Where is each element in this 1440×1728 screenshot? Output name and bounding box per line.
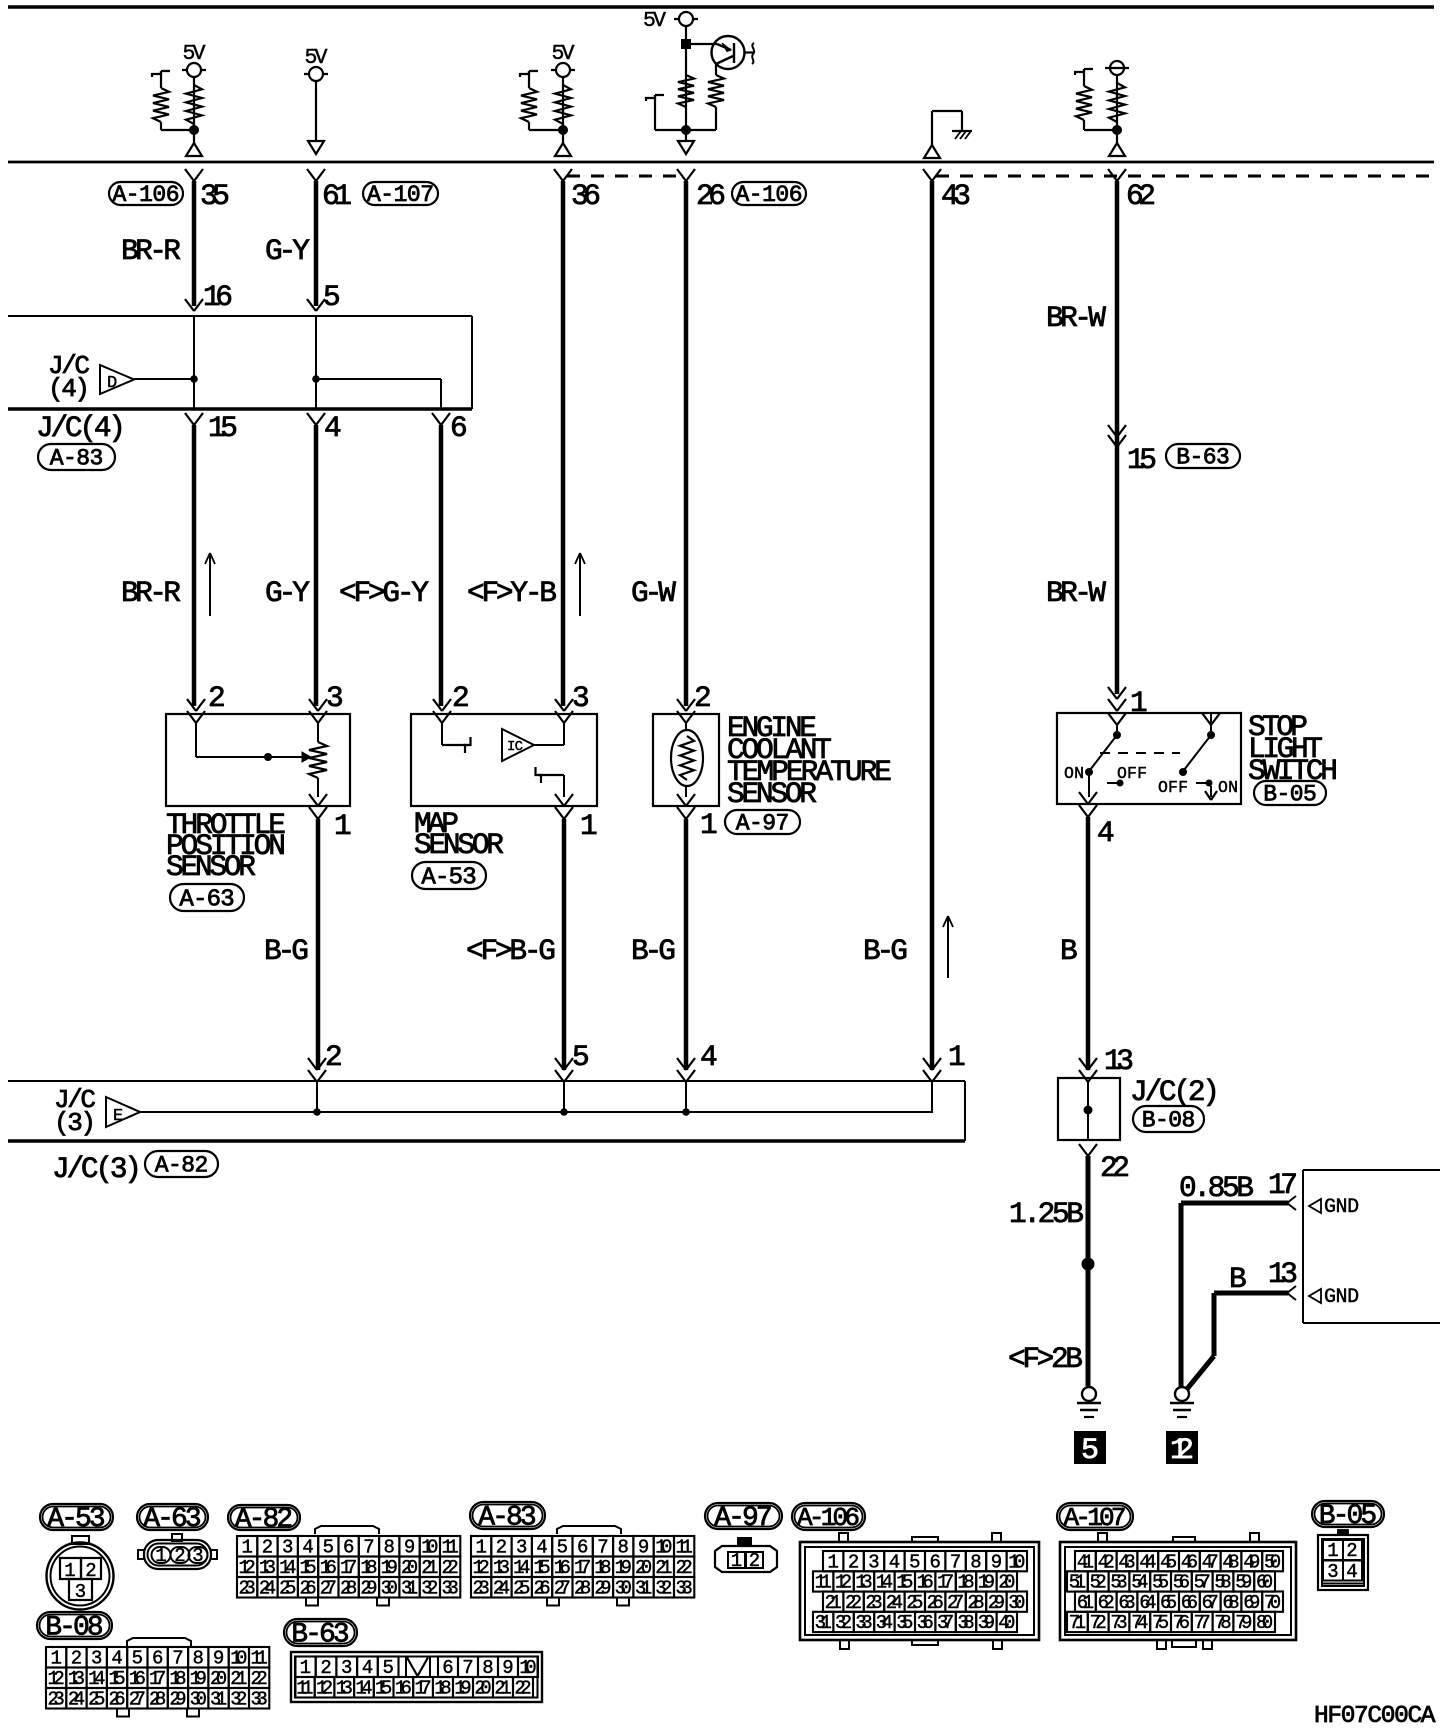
svg-text:23: 23 <box>865 1592 882 1614</box>
svg-text:ON: ON <box>1064 764 1084 783</box>
svg-text:9: 9 <box>638 1537 649 1559</box>
svg-text:3: 3 <box>341 1657 352 1679</box>
svg-text:53: 53 <box>1110 1572 1127 1594</box>
svg-text:71: 71 <box>1069 1612 1086 1634</box>
svg-text:16: 16 <box>554 1557 571 1579</box>
svg-text:2: 2 <box>85 1560 96 1582</box>
svg-text:4: 4 <box>362 1657 373 1679</box>
svg-text:33: 33 <box>676 1578 693 1600</box>
svg-text:29: 29 <box>360 1578 377 1600</box>
svg-text:19: 19 <box>978 1572 995 1594</box>
svg-text:13: 13 <box>493 1557 510 1579</box>
svg-text:5V: 5V <box>183 42 206 66</box>
svg-text:26: 26 <box>108 1689 125 1711</box>
svg-text:30: 30 <box>1008 1592 1025 1614</box>
svg-text:65: 65 <box>1160 1592 1177 1614</box>
svg-text:61: 61 <box>1077 1592 1094 1614</box>
svg-text:18: 18 <box>957 1572 974 1594</box>
svg-text:24: 24 <box>493 1578 510 1600</box>
svg-text:6: 6 <box>577 1537 588 1559</box>
svg-text:J/C(4): J/C(4) <box>36 411 126 445</box>
svg-text:12: 12 <box>239 1557 256 1579</box>
svg-text:15: 15 <box>1127 443 1157 477</box>
svg-text:33: 33 <box>442 1578 459 1600</box>
svg-text:12: 12 <box>316 1678 333 1700</box>
svg-text:3: 3 <box>192 1545 203 1567</box>
svg-text:13: 13 <box>259 1557 276 1579</box>
svg-text:B-63: B-63 <box>1176 445 1230 471</box>
svg-text:3: 3 <box>91 1648 102 1670</box>
svg-text:24: 24 <box>886 1592 903 1614</box>
svg-text:16: 16 <box>203 280 233 314</box>
svg-text:73: 73 <box>1110 1612 1127 1634</box>
svg-text:0.85B: 0.85B <box>1179 1171 1254 1205</box>
svg-text:37: 37 <box>937 1612 954 1634</box>
svg-text:E: E <box>113 1107 123 1126</box>
svg-text:11: 11 <box>296 1678 313 1700</box>
svg-text:1: 1 <box>300 1657 311 1679</box>
svg-text:5: 5 <box>1081 1434 1099 1468</box>
svg-text:2: 2 <box>208 681 226 715</box>
svg-text:B-63: B-63 <box>291 1620 349 1651</box>
svg-text:7: 7 <box>172 1648 183 1670</box>
svg-text:17: 17 <box>149 1668 166 1690</box>
svg-text:HF07C00CA: HF07C00CA <box>1314 1703 1436 1728</box>
svg-text:A-97: A-97 <box>736 811 790 837</box>
svg-text:17: 17 <box>937 1572 954 1594</box>
svg-text:56: 56 <box>1173 1572 1190 1594</box>
svg-text:40: 40 <box>998 1612 1015 1634</box>
svg-text:ON: ON <box>1218 778 1238 797</box>
svg-text:27: 27 <box>320 1578 337 1600</box>
svg-text:A-107: A-107 <box>367 182 434 208</box>
svg-text:6: 6 <box>450 411 468 445</box>
svg-text:51: 51 <box>1069 1572 1086 1594</box>
svg-text:GND: GND <box>1324 1286 1359 1309</box>
svg-text:6: 6 <box>442 1657 453 1679</box>
svg-text:3: 3 <box>282 1537 293 1559</box>
svg-text:68: 68 <box>1222 1592 1239 1614</box>
svg-text:26: 26 <box>927 1592 944 1614</box>
svg-text:5: 5 <box>909 1551 920 1573</box>
svg-text:3: 3 <box>1327 1561 1338 1583</box>
svg-text:D: D <box>107 374 117 393</box>
svg-text:10: 10 <box>1008 1551 1025 1573</box>
svg-text:18: 18 <box>434 1678 451 1700</box>
svg-text:7: 7 <box>950 1551 961 1573</box>
svg-text:20: 20 <box>210 1668 227 1690</box>
svg-text:2: 2 <box>325 1040 343 1074</box>
svg-text:24: 24 <box>259 1578 276 1600</box>
svg-text:B-G: B-G <box>863 934 908 968</box>
svg-text:33: 33 <box>855 1612 872 1634</box>
svg-text:4: 4 <box>324 411 342 445</box>
svg-text:A-97: A-97 <box>714 1503 772 1534</box>
svg-text:60: 60 <box>1256 1572 1273 1594</box>
svg-text:B: B <box>1060 934 1078 968</box>
svg-text:13: 13 <box>68 1668 85 1690</box>
svg-text:25: 25 <box>88 1689 105 1711</box>
svg-text:28: 28 <box>967 1592 984 1614</box>
svg-text:15: 15 <box>533 1557 550 1579</box>
svg-text:<F>Y-B: <F>Y-B <box>467 576 557 610</box>
svg-text:59: 59 <box>1235 1572 1252 1594</box>
svg-text:43: 43 <box>1118 1551 1135 1573</box>
svg-text:11: 11 <box>442 1537 459 1559</box>
svg-text:79: 79 <box>1235 1612 1252 1634</box>
svg-text:6: 6 <box>152 1648 163 1670</box>
svg-text:41: 41 <box>1077 1551 1094 1573</box>
svg-text:BR-W: BR-W <box>1046 576 1106 610</box>
svg-text:23: 23 <box>473 1578 490 1600</box>
svg-text:31: 31 <box>815 1612 832 1634</box>
svg-text:26: 26 <box>533 1578 550 1600</box>
svg-text:5: 5 <box>323 1537 334 1559</box>
svg-text:28: 28 <box>149 1689 166 1711</box>
svg-text:2: 2 <box>320 1657 331 1679</box>
svg-text:5V: 5V <box>305 46 328 70</box>
svg-text:19: 19 <box>381 1557 398 1579</box>
svg-text:12: 12 <box>48 1668 65 1690</box>
svg-text:1: 1 <box>1327 1540 1338 1562</box>
svg-text:B-G: B-G <box>631 934 676 968</box>
svg-text:30: 30 <box>381 1578 398 1600</box>
svg-text:5V: 5V <box>643 9 666 33</box>
svg-text:14: 14 <box>279 1557 296 1579</box>
svg-text:22: 22 <box>442 1557 459 1579</box>
svg-text:58: 58 <box>1214 1572 1231 1594</box>
svg-text:3: 3 <box>572 681 590 715</box>
svg-text:13: 13 <box>1104 1044 1134 1078</box>
svg-text:B-08: B-08 <box>45 1613 103 1644</box>
svg-text:B-08: B-08 <box>1142 1108 1196 1134</box>
svg-text:74: 74 <box>1131 1612 1148 1634</box>
svg-text:A-53: A-53 <box>47 1504 105 1535</box>
svg-text:5: 5 <box>132 1648 143 1670</box>
svg-text:18: 18 <box>169 1668 186 1690</box>
svg-text:67: 67 <box>1202 1592 1219 1614</box>
svg-text:77: 77 <box>1194 1612 1211 1634</box>
svg-text:35: 35 <box>896 1612 913 1634</box>
svg-text:<F>2B: <F>2B <box>1008 1342 1083 1376</box>
svg-text:<F>B-G: <F>B-G <box>466 934 556 968</box>
svg-text:64: 64 <box>1139 1592 1156 1614</box>
svg-text:13: 13 <box>336 1678 353 1700</box>
svg-text:B-05: B-05 <box>1263 782 1317 808</box>
svg-text:24: 24 <box>68 1689 85 1711</box>
svg-text:38: 38 <box>957 1612 974 1634</box>
svg-text:10: 10 <box>230 1648 247 1670</box>
svg-text:17: 17 <box>340 1557 357 1579</box>
svg-text:69: 69 <box>1243 1592 1260 1614</box>
svg-text:21: 21 <box>655 1557 672 1579</box>
svg-text:2: 2 <box>452 681 470 715</box>
svg-text:78: 78 <box>1214 1612 1231 1634</box>
svg-text:J/C(3): J/C(3) <box>52 1152 142 1186</box>
svg-text:1: 1 <box>731 1550 742 1572</box>
svg-text:20: 20 <box>474 1678 491 1700</box>
svg-text:52: 52 <box>1090 1572 1107 1594</box>
svg-text:63: 63 <box>1118 1592 1135 1614</box>
svg-text:BR-R: BR-R <box>121 234 181 268</box>
svg-text:27: 27 <box>129 1689 146 1711</box>
svg-text:2: 2 <box>749 1550 760 1572</box>
svg-text:21: 21 <box>230 1668 247 1690</box>
svg-text:9: 9 <box>404 1537 415 1559</box>
svg-text:1.25B: 1.25B <box>1009 1197 1084 1231</box>
svg-text:11: 11 <box>676 1537 693 1559</box>
svg-text:31: 31 <box>635 1578 652 1600</box>
svg-text:31: 31 <box>401 1578 418 1600</box>
svg-text:70: 70 <box>1264 1592 1281 1614</box>
svg-text:80: 80 <box>1256 1612 1273 1634</box>
svg-text:43: 43 <box>941 179 971 213</box>
svg-text:16: 16 <box>917 1572 934 1594</box>
svg-text:55: 55 <box>1152 1572 1169 1594</box>
svg-text:4: 4 <box>302 1537 313 1559</box>
svg-text:(4): (4) <box>48 374 90 404</box>
svg-text:26: 26 <box>696 179 726 213</box>
svg-text:20: 20 <box>401 1557 418 1579</box>
svg-text:12: 12 <box>473 1557 490 1579</box>
svg-text:22: 22 <box>514 1678 531 1700</box>
svg-text:A-82: A-82 <box>155 1153 209 1179</box>
svg-text:A-63: A-63 <box>179 886 234 913</box>
svg-text:A-53: A-53 <box>421 864 476 891</box>
svg-text:14: 14 <box>355 1678 372 1700</box>
svg-text:44: 44 <box>1139 1551 1156 1573</box>
svg-text:15: 15 <box>108 1668 125 1690</box>
svg-text:28: 28 <box>340 1578 357 1600</box>
svg-text:BR-R: BR-R <box>121 576 181 610</box>
svg-text:36: 36 <box>917 1612 934 1634</box>
svg-text:2: 2 <box>262 1537 273 1559</box>
svg-text:A-107: A-107 <box>1064 1503 1127 1533</box>
svg-text:23: 23 <box>48 1689 65 1711</box>
svg-text:10: 10 <box>655 1537 672 1559</box>
svg-text:4: 4 <box>889 1551 900 1573</box>
svg-text:23: 23 <box>239 1578 256 1600</box>
svg-text:9: 9 <box>502 1657 513 1679</box>
svg-text:A-106: A-106 <box>736 182 803 208</box>
svg-text:1: 1 <box>827 1551 838 1573</box>
svg-text:OFF: OFF <box>1158 778 1188 797</box>
svg-text:7: 7 <box>597 1537 608 1559</box>
svg-text:A-106: A-106 <box>113 182 180 208</box>
svg-text:3: 3 <box>75 1581 86 1603</box>
svg-text:2: 2 <box>694 681 712 715</box>
svg-text:2: 2 <box>1346 1540 1357 1562</box>
svg-text:11: 11 <box>815 1572 832 1594</box>
svg-text:4: 4 <box>1097 816 1115 850</box>
svg-text:8: 8 <box>384 1537 395 1559</box>
svg-text:18: 18 <box>594 1557 611 1579</box>
svg-text:20: 20 <box>998 1572 1015 1594</box>
svg-text:5: 5 <box>572 1040 590 1074</box>
svg-text:57: 57 <box>1194 1572 1211 1594</box>
svg-text:5: 5 <box>557 1537 568 1559</box>
svg-text:8: 8 <box>482 1657 493 1679</box>
svg-text:62: 62 <box>1126 179 1156 213</box>
svg-text:21: 21 <box>494 1678 511 1700</box>
svg-text:20: 20 <box>635 1557 652 1579</box>
svg-text:46: 46 <box>1181 1551 1198 1573</box>
svg-text:16: 16 <box>320 1557 337 1579</box>
svg-text:7: 7 <box>462 1657 473 1679</box>
svg-text:4: 4 <box>700 1040 718 1074</box>
svg-text:2: 2 <box>848 1551 859 1573</box>
svg-text:50: 50 <box>1264 1551 1281 1573</box>
svg-text:39: 39 <box>978 1612 995 1634</box>
svg-text:25: 25 <box>513 1578 530 1600</box>
svg-text:61: 61 <box>322 179 352 213</box>
svg-text:A-63: A-63 <box>143 1504 201 1535</box>
svg-text:32: 32 <box>835 1612 852 1634</box>
svg-text:(3): (3) <box>54 1108 96 1138</box>
svg-text:3: 3 <box>868 1551 879 1573</box>
svg-text:17: 17 <box>574 1557 591 1579</box>
svg-text:B-G: B-G <box>264 934 309 968</box>
svg-text:22: 22 <box>845 1592 862 1614</box>
svg-text:4: 4 <box>536 1537 547 1559</box>
svg-text:8: 8 <box>970 1551 981 1573</box>
svg-text:1: 1 <box>948 1040 966 1074</box>
svg-text:1: 1 <box>155 1545 166 1567</box>
svg-text:2: 2 <box>71 1648 82 1670</box>
svg-text:B-05: B-05 <box>1319 1501 1377 1532</box>
svg-text:29: 29 <box>988 1592 1005 1614</box>
svg-text:1: 1 <box>700 808 718 842</box>
svg-text:34: 34 <box>876 1612 893 1634</box>
svg-text:31: 31 <box>210 1689 227 1711</box>
svg-text:4: 4 <box>111 1648 122 1670</box>
svg-text:12: 12 <box>1170 1434 1194 1468</box>
svg-text:14: 14 <box>876 1572 893 1594</box>
svg-text:15: 15 <box>208 411 238 445</box>
svg-text:22: 22 <box>1100 1151 1130 1185</box>
svg-text:14: 14 <box>88 1668 105 1690</box>
svg-text:54: 54 <box>1131 1572 1148 1594</box>
svg-text:5: 5 <box>382 1657 393 1679</box>
svg-text:5: 5 <box>323 280 341 314</box>
svg-text:25: 25 <box>906 1592 923 1614</box>
svg-text:1: 1 <box>580 809 598 843</box>
svg-text:A-82: A-82 <box>235 1505 293 1536</box>
svg-text:IC: IC <box>507 739 523 755</box>
svg-text:G-W: G-W <box>631 576 676 610</box>
svg-text:1: 1 <box>475 1537 486 1559</box>
svg-text:1: 1 <box>1130 686 1148 720</box>
svg-text:GND: GND <box>1324 1196 1359 1219</box>
svg-text:62: 62 <box>1098 1592 1115 1614</box>
svg-text:75: 75 <box>1152 1612 1169 1634</box>
svg-text:21: 21 <box>421 1557 438 1579</box>
svg-text:19: 19 <box>454 1678 471 1700</box>
svg-text:16: 16 <box>395 1678 412 1700</box>
svg-text:49: 49 <box>1243 1551 1260 1573</box>
svg-text:22: 22 <box>251 1668 268 1690</box>
svg-text:1: 1 <box>50 1648 61 1670</box>
svg-text:7: 7 <box>363 1537 374 1559</box>
svg-text:11: 11 <box>251 1648 268 1670</box>
svg-text:42: 42 <box>1098 1551 1115 1573</box>
svg-text:J/C(2): J/C(2) <box>1130 1075 1220 1109</box>
svg-text:G-Y: G-Y <box>265 234 310 268</box>
svg-text:6: 6 <box>343 1537 354 1559</box>
svg-text:19: 19 <box>190 1668 207 1690</box>
svg-text:A-83: A-83 <box>478 1503 536 1534</box>
svg-text:29: 29 <box>594 1578 611 1600</box>
svg-text:3: 3 <box>326 681 344 715</box>
svg-text:15: 15 <box>299 1557 316 1579</box>
svg-text:18: 18 <box>360 1557 377 1579</box>
svg-text:16: 16 <box>129 1668 146 1690</box>
svg-text:4: 4 <box>1346 1561 1357 1583</box>
svg-text:13: 13 <box>855 1572 872 1594</box>
svg-text:2: 2 <box>496 1537 507 1559</box>
svg-text:SENSOR: SENSOR <box>414 828 504 862</box>
svg-text:72: 72 <box>1090 1612 1107 1634</box>
svg-text:48: 48 <box>1222 1551 1239 1573</box>
svg-text:SENSOR: SENSOR <box>727 777 817 811</box>
svg-text:SENSOR: SENSOR <box>166 850 256 884</box>
svg-text:36: 36 <box>571 179 601 213</box>
svg-text:29: 29 <box>169 1689 186 1711</box>
svg-text:15: 15 <box>896 1572 913 1594</box>
svg-text:10: 10 <box>519 1657 536 1679</box>
svg-text:47: 47 <box>1202 1551 1219 1573</box>
svg-text:5V: 5V <box>552 42 575 66</box>
svg-text:26: 26 <box>299 1578 316 1600</box>
svg-text:30: 30 <box>615 1578 632 1600</box>
svg-text:15: 15 <box>375 1678 392 1700</box>
svg-text:G-Y: G-Y <box>265 576 310 610</box>
svg-text:25: 25 <box>279 1578 296 1600</box>
svg-text:35: 35 <box>200 179 230 213</box>
svg-text:1: 1 <box>334 809 352 843</box>
svg-text:17: 17 <box>414 1678 431 1700</box>
svg-text:12: 12 <box>835 1572 852 1594</box>
svg-text:1: 1 <box>241 1537 252 1559</box>
svg-text:21: 21 <box>825 1592 842 1614</box>
svg-text:13: 13 <box>1268 1257 1298 1291</box>
svg-text:8: 8 <box>193 1648 204 1670</box>
svg-text:9: 9 <box>213 1648 224 1670</box>
svg-text:33: 33 <box>251 1689 268 1711</box>
svg-text:14: 14 <box>513 1557 530 1579</box>
svg-text:28: 28 <box>574 1578 591 1600</box>
svg-text:A-83: A-83 <box>50 446 104 472</box>
svg-text:9: 9 <box>991 1551 1002 1573</box>
svg-text:<F>G-Y: <F>G-Y <box>339 576 429 610</box>
svg-text:6: 6 <box>929 1551 940 1573</box>
svg-text:1: 1 <box>64 1560 75 1582</box>
svg-text:8: 8 <box>618 1537 629 1559</box>
svg-text:27: 27 <box>554 1578 571 1600</box>
svg-text:32: 32 <box>421 1578 438 1600</box>
svg-text:76: 76 <box>1173 1612 1190 1634</box>
svg-text:3: 3 <box>516 1537 527 1559</box>
svg-text:32: 32 <box>655 1578 672 1600</box>
svg-text:27: 27 <box>947 1592 964 1614</box>
svg-text:A-106: A-106 <box>797 1503 860 1533</box>
svg-text:30: 30 <box>190 1689 207 1711</box>
svg-text:45: 45 <box>1160 1551 1177 1573</box>
svg-text:32: 32 <box>230 1689 247 1711</box>
svg-text:2: 2 <box>174 1545 185 1567</box>
svg-text:BR-W: BR-W <box>1046 301 1106 335</box>
svg-text:10: 10 <box>421 1537 438 1559</box>
